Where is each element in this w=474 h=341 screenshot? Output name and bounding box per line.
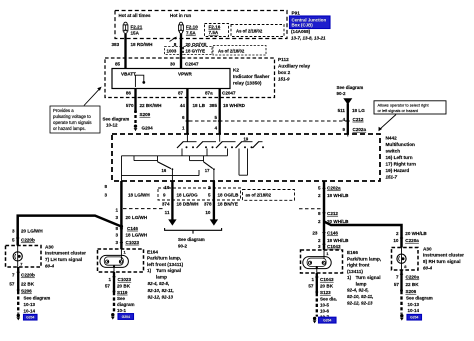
svg-text:lamp: lamp bbox=[156, 275, 167, 280]
svg-text:As of 2/18/02: As of 2/18/02 bbox=[236, 29, 263, 34]
svg-text:86: 86 bbox=[126, 91, 132, 96]
svg-text:C202a: C202a bbox=[353, 127, 367, 132]
svg-text:F2.21: F2.21 bbox=[131, 25, 143, 30]
svg-text:Instrument cluster: Instrument cluster bbox=[45, 251, 86, 256]
svg-text:P91: P91 bbox=[292, 11, 301, 16]
svg-text:22 BK: 22 BK bbox=[406, 282, 420, 287]
svg-text:20 WH/LB: 20 WH/LB bbox=[405, 231, 427, 236]
svg-text:C1043: C1043 bbox=[327, 244, 341, 249]
svg-text:C2047: C2047 bbox=[222, 91, 236, 96]
svg-text:See diagram: See diagram bbox=[24, 296, 51, 301]
svg-text:10-13: 10-13 bbox=[24, 302, 36, 307]
svg-text:57: 57 bbox=[394, 282, 400, 287]
svg-text:C220b: C220b bbox=[21, 273, 35, 278]
svg-text:G204: G204 bbox=[122, 315, 130, 319]
svg-text:92-4, 92-5,: 92-4, 92-5, bbox=[347, 288, 369, 293]
svg-text:10-12: 10-12 bbox=[106, 123, 118, 128]
svg-text:(14A068): (14A068) bbox=[291, 29, 311, 34]
svg-text:11: 11 bbox=[165, 210, 170, 215]
svg-text:10-14: 10-14 bbox=[24, 309, 36, 314]
svg-text:7.5A: 7.5A bbox=[209, 30, 219, 35]
svg-text:7: 7 bbox=[12, 273, 15, 278]
svg-text:16) Left turn: 16) Left turn bbox=[386, 155, 413, 160]
svg-text:18 WH/LB: 18 WH/LB bbox=[327, 238, 349, 243]
svg-text:5: 5 bbox=[214, 115, 217, 120]
svg-text:18 WH/LB: 18 WH/LB bbox=[327, 193, 349, 198]
svg-text:18 LG: 18 LG bbox=[352, 108, 365, 113]
svg-text:2: 2 bbox=[208, 185, 211, 190]
svg-text:1: 1 bbox=[182, 126, 185, 131]
svg-text:10-6: 10-6 bbox=[320, 309, 330, 314]
svg-text:92-10, 92-11,: 92-10, 92-11, bbox=[347, 294, 373, 299]
svg-text:18 LG/WH: 18 LG/WH bbox=[126, 233, 148, 238]
svg-text:diagram: diagram bbox=[117, 302, 135, 307]
svg-text:C212: C212 bbox=[327, 211, 338, 216]
svg-text:C220b: C220b bbox=[21, 238, 35, 243]
svg-text:3: 3 bbox=[115, 233, 118, 238]
svg-text:2: 2 bbox=[318, 238, 321, 243]
svg-text:See diagram: See diagram bbox=[178, 237, 205, 242]
svg-text:23: 23 bbox=[312, 231, 318, 236]
svg-text:G204: G204 bbox=[323, 319, 331, 323]
svg-text:right front: right front bbox=[347, 263, 370, 268]
svg-text:22 BK/WH: 22 BK/WH bbox=[140, 103, 163, 108]
svg-text:See dia.: See dia. bbox=[320, 296, 337, 301]
svg-text:See diagram: See diagram bbox=[103, 117, 130, 122]
svg-text:K2: K2 bbox=[233, 68, 239, 73]
svg-text:As of 2/18/02: As of 2/18/02 bbox=[218, 48, 245, 53]
svg-text:3: 3 bbox=[12, 229, 15, 234]
svg-text:2: 2 bbox=[396, 231, 399, 236]
svg-text:3: 3 bbox=[104, 193, 107, 198]
svg-text:Instrument cluster: Instrument cluster bbox=[423, 253, 464, 258]
svg-text:18 DB/WH: 18 DB/WH bbox=[177, 202, 200, 207]
svg-text:570: 570 bbox=[126, 103, 134, 108]
svg-text:S206: S206 bbox=[21, 289, 32, 294]
svg-text:A30: A30 bbox=[423, 247, 432, 252]
svg-text:18 LG/WH: 18 LG/WH bbox=[128, 193, 150, 198]
svg-text:as of 2/18/02: as of 2/18/02 bbox=[246, 193, 272, 198]
svg-text:or left signals or hazard: or left signals or hazard bbox=[378, 108, 418, 113]
svg-text:20 LG/WH: 20 LG/WH bbox=[21, 229, 43, 234]
svg-text:10: 10 bbox=[205, 210, 211, 215]
svg-text:Park/turn lamp,: Park/turn lamp, bbox=[147, 256, 181, 261]
svg-text:60-4: 60-4 bbox=[45, 264, 55, 269]
svg-text:P112: P112 bbox=[278, 57, 289, 62]
svg-text:7.5A: 7.5A bbox=[186, 31, 196, 36]
svg-text:385: 385 bbox=[209, 103, 217, 108]
svg-text:Turn signal: Turn signal bbox=[156, 268, 181, 273]
svg-text:19: 19 bbox=[244, 137, 249, 142]
svg-text:5: 5 bbox=[318, 186, 321, 191]
svg-text:See diagram: See diagram bbox=[406, 296, 433, 301]
svg-text:lamp: lamp bbox=[356, 282, 367, 287]
svg-text:VPWR: VPWR bbox=[178, 72, 192, 77]
svg-text:G204: G204 bbox=[410, 316, 418, 320]
svg-text:S206: S206 bbox=[406, 289, 417, 294]
svg-text:8) RH turn signal: 8) RH turn signal bbox=[423, 259, 461, 264]
svg-text:511: 511 bbox=[338, 108, 346, 113]
svg-text:92-12, 92-13: 92-12, 92-13 bbox=[347, 301, 373, 306]
svg-text:S119: S119 bbox=[117, 290, 128, 295]
svg-text:pulsating voltage to: pulsating voltage to bbox=[53, 114, 91, 119]
svg-text:C1043: C1043 bbox=[320, 277, 334, 282]
svg-text:18 LG/OG: 18 LG/OG bbox=[177, 192, 199, 197]
svg-text:18 LB: 18 LB bbox=[193, 103, 206, 108]
svg-text:5: 5 bbox=[12, 238, 15, 243]
svg-text:18 WH/RD: 18 WH/RD bbox=[223, 103, 246, 108]
svg-text:1: 1 bbox=[311, 277, 314, 282]
svg-text:Hot in run: Hot in run bbox=[170, 13, 191, 18]
svg-text:57: 57 bbox=[9, 282, 15, 287]
svg-text:151-9: 151-9 bbox=[278, 77, 290, 82]
svg-text:F2.10: F2.10 bbox=[186, 25, 198, 30]
svg-text:19) Hazard: 19) Hazard bbox=[386, 168, 410, 173]
svg-text:7: 7 bbox=[396, 275, 399, 280]
svg-text:383: 383 bbox=[112, 42, 120, 47]
svg-text:1): 1) bbox=[147, 268, 152, 273]
svg-text:20 BK: 20 BK bbox=[320, 284, 334, 289]
svg-text:10-14: 10-14 bbox=[408, 308, 420, 313]
svg-text:1): 1) bbox=[347, 275, 352, 280]
svg-text:90-2: 90-2 bbox=[337, 91, 347, 96]
svg-text:22 BK: 22 BK bbox=[21, 282, 35, 287]
svg-text:Auxiliary relay: Auxiliary relay bbox=[278, 64, 310, 69]
svg-text:Hot at all times: Hot at all times bbox=[119, 13, 152, 18]
svg-text:C146: C146 bbox=[327, 231, 338, 236]
svg-text:3: 3 bbox=[115, 240, 118, 245]
svg-text:57: 57 bbox=[105, 283, 111, 288]
svg-text:10-13: 10-13 bbox=[408, 302, 420, 307]
svg-text:relay (13350): relay (13350) bbox=[233, 81, 262, 86]
svg-text:3: 3 bbox=[115, 215, 118, 220]
svg-text:C146: C146 bbox=[127, 226, 138, 231]
svg-text:C220a: C220a bbox=[406, 275, 420, 280]
svg-text:1003: 1003 bbox=[167, 49, 177, 54]
svg-text:87: 87 bbox=[178, 91, 184, 96]
svg-text:C1023: C1023 bbox=[126, 240, 140, 245]
svg-text:92-10, 92-11,: 92-10, 92-11, bbox=[148, 288, 174, 293]
svg-text:57: 57 bbox=[308, 284, 314, 289]
svg-text:See: See bbox=[117, 296, 126, 301]
svg-text:378: 378 bbox=[204, 202, 212, 207]
svg-text:13-7, 13-8, 13-21: 13-7, 13-8, 13-21 bbox=[291, 36, 326, 41]
svg-text:C202a: C202a bbox=[327, 186, 341, 191]
svg-text:4: 4 bbox=[342, 117, 345, 122]
svg-text:E164: E164 bbox=[147, 249, 158, 254]
svg-text:18 BN/YE: 18 BN/YE bbox=[218, 202, 238, 207]
svg-text:8: 8 bbox=[115, 226, 118, 231]
svg-text:box 2: box 2 bbox=[278, 70, 291, 75]
svg-text:(13411): (13411) bbox=[347, 269, 363, 274]
svg-text:S123: S123 bbox=[320, 290, 331, 295]
svg-text:1: 1 bbox=[115, 208, 118, 213]
svg-text:3: 3 bbox=[318, 244, 321, 249]
svg-text:85: 85 bbox=[115, 62, 121, 67]
svg-text:30: 30 bbox=[170, 62, 176, 67]
svg-text:16: 16 bbox=[162, 168, 167, 173]
svg-text:Allows operator to select righ: Allows operator to select right bbox=[378, 103, 430, 108]
svg-text:left front (13411): left front (13411) bbox=[147, 262, 184, 267]
svg-text:7) LH turn signal: 7) LH turn signal bbox=[45, 257, 82, 262]
svg-text:374: 374 bbox=[162, 202, 170, 207]
svg-text:2: 2 bbox=[318, 219, 321, 224]
svg-text:10: 10 bbox=[164, 185, 170, 190]
svg-text:151-7: 151-7 bbox=[386, 175, 398, 180]
svg-text:2: 2 bbox=[318, 193, 321, 198]
svg-text:C1023: C1023 bbox=[118, 277, 132, 282]
svg-text:1: 1 bbox=[108, 277, 111, 282]
svg-text:8: 8 bbox=[104, 184, 107, 189]
svg-text:G204: G204 bbox=[26, 316, 34, 320]
svg-text:92-12, 92-13: 92-12, 92-13 bbox=[148, 294, 174, 299]
svg-text:9: 9 bbox=[163, 192, 166, 197]
svg-text:G204: G204 bbox=[142, 125, 154, 130]
svg-text:20 WH/LB: 20 WH/LB bbox=[327, 219, 349, 224]
svg-text:E166: E166 bbox=[347, 250, 358, 255]
svg-text:5: 5 bbox=[208, 192, 211, 197]
svg-text:Park/turn lamp,: Park/turn lamp, bbox=[347, 256, 381, 261]
svg-text:15A: 15A bbox=[131, 31, 140, 36]
svg-text:A30: A30 bbox=[45, 245, 54, 250]
svg-text:Provides a: Provides a bbox=[53, 108, 74, 113]
svg-text:87a: 87a bbox=[205, 91, 213, 96]
svg-text:Turn signal: Turn signal bbox=[356, 275, 381, 280]
svg-text:18 OG/LB: 18 OG/LB bbox=[218, 192, 240, 197]
svg-text:17: 17 bbox=[205, 168, 210, 173]
svg-text:Box (CJB): Box (CJB) bbox=[292, 23, 314, 28]
svg-text:18 GY/YE: 18 GY/YE bbox=[186, 49, 206, 54]
svg-text:92-4, 92-5,: 92-4, 92-5, bbox=[148, 281, 170, 286]
svg-text:F2.16: F2.16 bbox=[209, 25, 221, 30]
svg-text:Indicator flasher: Indicator flasher bbox=[233, 74, 270, 79]
svg-text:switch: switch bbox=[386, 149, 401, 154]
svg-text:9: 9 bbox=[342, 127, 345, 132]
svg-text:8: 8 bbox=[318, 211, 321, 216]
svg-text:See diagram: See diagram bbox=[337, 85, 364, 90]
svg-text:S209: S209 bbox=[140, 112, 151, 117]
svg-text:10-1: 10-1 bbox=[117, 308, 127, 313]
svg-text:60-4: 60-4 bbox=[423, 266, 433, 271]
svg-text:C212: C212 bbox=[353, 117, 364, 122]
svg-text:6: 6 bbox=[182, 115, 185, 120]
svg-text:C220a: C220a bbox=[405, 238, 419, 243]
svg-text:10: 10 bbox=[393, 238, 399, 243]
svg-text:44: 44 bbox=[180, 103, 186, 108]
svg-text:17) Right turn: 17) Right turn bbox=[386, 162, 417, 167]
svg-text:4: 4 bbox=[214, 126, 217, 131]
svg-text:C2047: C2047 bbox=[185, 62, 199, 67]
svg-text:VBATT: VBATT bbox=[121, 72, 136, 77]
svg-text:or hazard lamps.: or hazard lamps. bbox=[53, 126, 86, 131]
svg-text:N442: N442 bbox=[386, 136, 398, 141]
svg-text:10-5: 10-5 bbox=[320, 302, 330, 307]
svg-text:20 BK: 20 BK bbox=[117, 283, 131, 288]
svg-text:20 LG/WH: 20 LG/WH bbox=[126, 215, 148, 220]
svg-text:Multifunction: Multifunction bbox=[386, 142, 416, 147]
svg-text:18 RD/WH: 18 RD/WH bbox=[131, 42, 154, 47]
svg-text:operate turn signals: operate turn signals bbox=[53, 120, 92, 125]
svg-text:90-2: 90-2 bbox=[178, 244, 188, 249]
